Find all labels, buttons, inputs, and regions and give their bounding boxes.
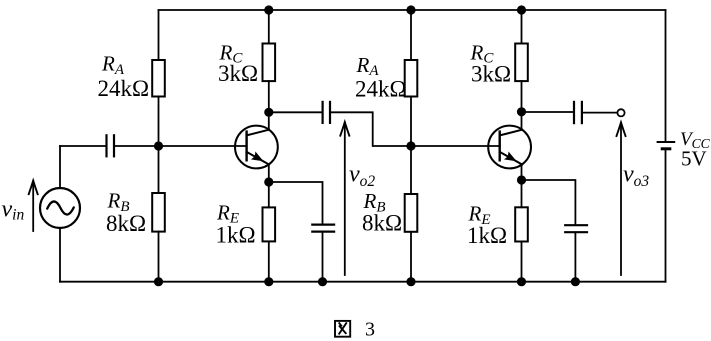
node RA2 top rail (406, 5, 415, 14)
svg-text:5V: 5V (681, 147, 707, 171)
wire CE1 to ground (322, 233, 324, 282)
wire bottom ground rail (60, 281, 666, 283)
wire C2 to base of Q2 (331, 112, 411, 146)
wire input to capacitor C1 (60, 145, 105, 147)
svg-text:RA: RA (356, 53, 380, 79)
wire base Q2 (411, 145, 500, 147)
resistor RB1 (152, 146, 165, 282)
resistor RE2 (515, 180, 528, 282)
resistor RA2 (405, 10, 418, 146)
arrow vin (29, 181, 38, 231)
capacitor C2 (323, 101, 330, 124)
node emitter Q2 (517, 175, 526, 184)
wire C1 to base of Q1 (115, 145, 246, 147)
resistor RC2 (515, 10, 528, 130)
capacitor CE1 (311, 225, 335, 232)
wire vin bottom lead (59, 228, 61, 282)
node RB2 ground (406, 277, 415, 286)
capacitor CE2 (564, 225, 588, 232)
wire emitter Q1 (268, 165, 270, 183)
svg-text:3kΩ: 3kΩ (471, 62, 511, 87)
svg-text:3: 3 (365, 318, 375, 340)
wire top supply rail (159, 9, 666, 11)
wire C3 to output terminal (583, 112, 617, 114)
svg-text:vin: vin (2, 197, 25, 224)
node base Q2 (406, 141, 415, 150)
battery VCC (657, 10, 676, 149)
svg-text:3kΩ: 3kΩ (218, 61, 258, 86)
transistor Q2 (488, 126, 531, 169)
wire emitter Q2 to CE2 (522, 180, 576, 224)
node collector Q1 (264, 108, 273, 117)
resistor RE1 (263, 182, 276, 282)
node RE2 ground (517, 277, 526, 286)
arrow vo3 (617, 122, 626, 275)
terminal output (617, 109, 624, 116)
node collector Q2 (517, 107, 526, 116)
wire emitter Q1 to CE1 (269, 182, 323, 223)
source VIN (40, 188, 80, 228)
capacitor C3 (574, 101, 582, 124)
svg-text:RA: RA (101, 52, 125, 78)
svg-text:1kΩ: 1kΩ (467, 223, 507, 248)
node CE2 ground (571, 277, 580, 286)
svg-text:1kΩ: 1kΩ (216, 223, 256, 248)
svg-text:24kΩ: 24kΩ (98, 76, 150, 101)
resistor RB2 (405, 146, 418, 282)
svg-text:vo3: vo3 (623, 161, 649, 190)
node RE1 ground (264, 277, 273, 286)
arrow vo2 (340, 122, 349, 275)
wire collector Q2 to C3 (522, 111, 573, 113)
node RC1 top rail (264, 5, 273, 14)
node emitter Q1 (264, 177, 273, 186)
resistor RA1 (152, 10, 165, 146)
node RC2 top rail (517, 5, 526, 14)
label caption figure glyph (335, 321, 350, 337)
wire right edge riser (rail to battery) (665, 150, 667, 282)
wire vin top lead (59, 146, 61, 188)
capacitor C1 (107, 134, 115, 157)
svg-text:8kΩ: 8kΩ (106, 211, 146, 236)
wire emitter Q2 (521, 165, 523, 181)
transistor Q1 (235, 126, 278, 169)
resistor RC1 (263, 10, 276, 130)
wire collector Q1 to C2 (269, 111, 322, 113)
wire CE2 to ground (574, 233, 576, 281)
svg-text:vo2: vo2 (349, 161, 375, 190)
svg-text:24kΩ: 24kΩ (355, 77, 407, 102)
node base Q1 (154, 141, 163, 150)
node CE1 ground (318, 277, 327, 286)
node RB1 ground (154, 277, 163, 286)
svg-text:8kΩ: 8kΩ (362, 211, 402, 236)
